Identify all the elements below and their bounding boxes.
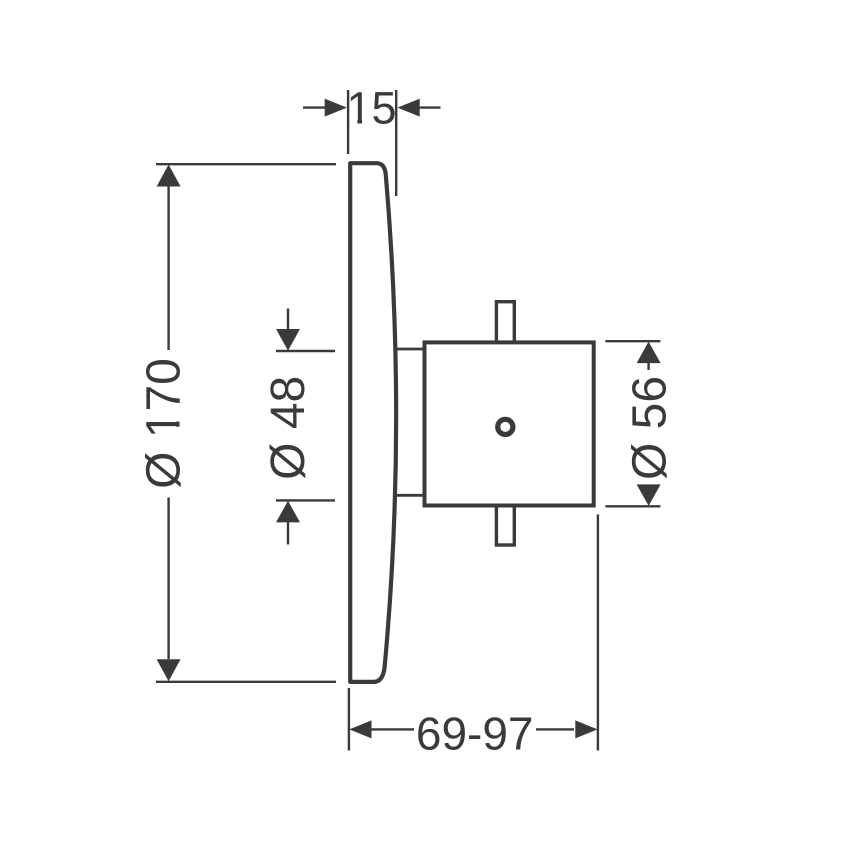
svg-text:Ø 48: Ø 48 <box>262 376 315 480</box>
svg-text:Ø 170: Ø 170 <box>138 358 191 489</box>
svg-text:15: 15 <box>346 82 396 133</box>
svg-text:69-97: 69-97 <box>416 707 534 759</box>
svg-text:Ø 56: Ø 56 <box>624 376 677 480</box>
